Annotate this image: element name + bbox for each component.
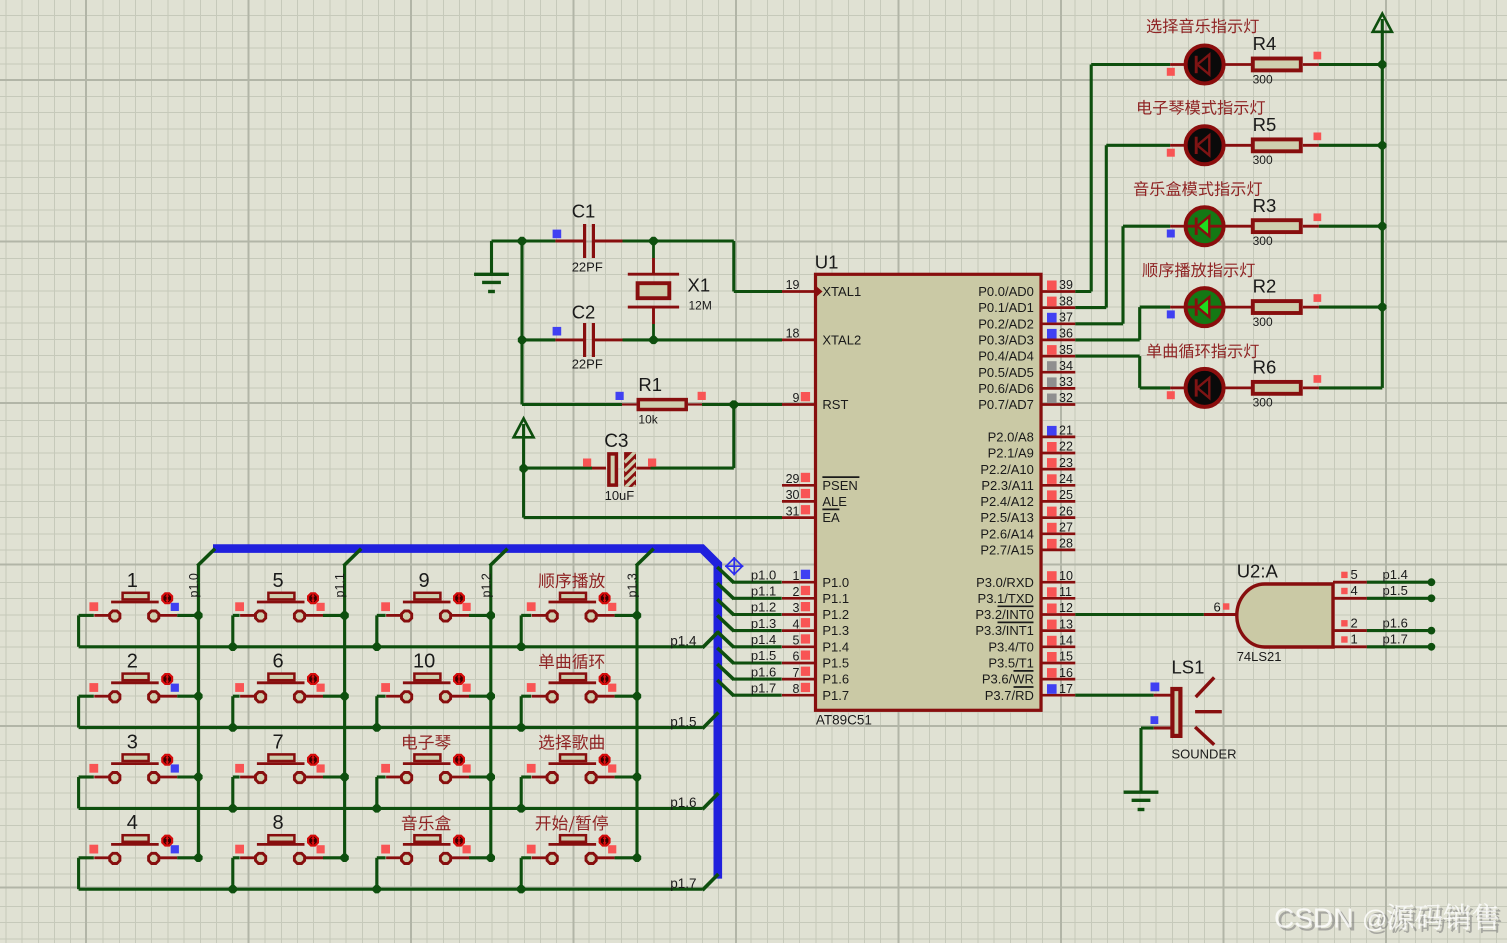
svg-text:LS1: LS1 xyxy=(1172,657,1205,678)
svg-text:R1: R1 xyxy=(638,374,662,395)
svg-text:ALE: ALE xyxy=(822,494,847,509)
svg-text:p1.7: p1.7 xyxy=(670,876,696,891)
svg-text:P1.3: P1.3 xyxy=(822,623,849,638)
svg-text:300: 300 xyxy=(1253,315,1273,329)
svg-text:27: 27 xyxy=(1059,521,1073,535)
svg-text:R6: R6 xyxy=(1253,357,1277,378)
svg-text:10uF: 10uF xyxy=(605,488,635,503)
svg-text:P2.3/A11: P2.3/A11 xyxy=(981,478,1034,493)
svg-text:8: 8 xyxy=(793,682,800,696)
svg-text:XTAL2: XTAL2 xyxy=(822,333,861,348)
svg-text:P3.2/INT0: P3.2/INT0 xyxy=(975,607,1034,622)
svg-text:P1.1: P1.1 xyxy=(822,591,849,606)
svg-text:CSDN: CSDN xyxy=(1274,903,1353,934)
svg-text:11: 11 xyxy=(1059,585,1072,599)
svg-text:P0.0/AD0: P0.0/AD0 xyxy=(978,284,1034,299)
svg-text:10: 10 xyxy=(413,651,435,673)
svg-text:12M: 12M xyxy=(689,299,712,313)
svg-text:R5: R5 xyxy=(1253,114,1277,135)
svg-text:P3.1/TXD: P3.1/TXD xyxy=(978,591,1034,606)
svg-text:R3: R3 xyxy=(1253,195,1277,216)
svg-text:P3.3/INT1: P3.3/INT1 xyxy=(975,623,1034,638)
svg-text:22PF: 22PF xyxy=(572,357,603,372)
svg-text:RST: RST xyxy=(822,397,848,412)
svg-text:P1.7: P1.7 xyxy=(822,688,849,703)
svg-text:p1.3: p1.3 xyxy=(751,616,776,631)
svg-text:EA: EA xyxy=(822,510,840,525)
svg-text:22PF: 22PF xyxy=(572,260,603,275)
svg-text:26: 26 xyxy=(1059,504,1073,518)
svg-text:P2.1/A9: P2.1/A9 xyxy=(988,446,1034,461)
svg-text:P2.4/A12: P2.4/A12 xyxy=(980,494,1034,509)
svg-text:XTAL1: XTAL1 xyxy=(822,284,861,299)
svg-text:33: 33 xyxy=(1059,375,1073,389)
svg-text:p1.4: p1.4 xyxy=(670,634,697,649)
svg-text:p1.4: p1.4 xyxy=(751,632,776,647)
svg-text:1: 1 xyxy=(127,570,138,592)
svg-text:C3: C3 xyxy=(604,431,628,452)
svg-text:p1.3: p1.3 xyxy=(626,573,640,597)
svg-text:6: 6 xyxy=(273,651,284,673)
svg-text:P3.7/RD: P3.7/RD xyxy=(985,688,1034,703)
svg-text:5: 5 xyxy=(1351,567,1358,582)
svg-text:9: 9 xyxy=(419,570,430,592)
svg-text:p1.0: p1.0 xyxy=(187,573,201,597)
svg-text:p1.0: p1.0 xyxy=(751,567,776,582)
svg-text:19: 19 xyxy=(786,278,800,292)
svg-text:300: 300 xyxy=(1253,234,1273,248)
svg-text:2: 2 xyxy=(127,651,138,673)
svg-text:29: 29 xyxy=(786,472,800,486)
svg-text:P1.4: P1.4 xyxy=(822,639,849,654)
svg-text:p1.6: p1.6 xyxy=(1383,615,1408,630)
svg-text:U2:A: U2:A xyxy=(1237,560,1279,581)
svg-text:6: 6 xyxy=(1213,600,1220,615)
svg-text:P3.0/RXD: P3.0/RXD xyxy=(976,575,1034,590)
svg-text:P0.6/AD6: P0.6/AD6 xyxy=(978,381,1034,396)
svg-text:P3.5/T1: P3.5/T1 xyxy=(988,656,1034,671)
svg-text:7: 7 xyxy=(273,731,284,753)
svg-text:28: 28 xyxy=(1059,537,1073,551)
svg-text:p1.5: p1.5 xyxy=(670,714,696,729)
svg-text:10k: 10k xyxy=(638,413,658,427)
svg-text:39: 39 xyxy=(1059,278,1073,292)
svg-text:P0.1/AD1: P0.1/AD1 xyxy=(978,300,1034,315)
svg-text:p1.1: p1.1 xyxy=(751,584,776,599)
svg-text:P1.2: P1.2 xyxy=(822,607,849,622)
svg-text:74LS21: 74LS21 xyxy=(1237,649,1282,664)
svg-text:P3.6/WR: P3.6/WR xyxy=(982,672,1034,687)
svg-text:R4: R4 xyxy=(1253,33,1277,54)
svg-text:p1.2: p1.2 xyxy=(751,600,776,615)
svg-text:2: 2 xyxy=(1351,615,1358,630)
svg-text:P0.7/AD7: P0.7/AD7 xyxy=(978,397,1034,412)
svg-text:34: 34 xyxy=(1059,359,1073,373)
svg-text:U1: U1 xyxy=(815,251,839,272)
svg-text:24: 24 xyxy=(1059,472,1073,486)
svg-text:300: 300 xyxy=(1253,153,1273,167)
svg-text:25: 25 xyxy=(1059,488,1073,502)
svg-text:37: 37 xyxy=(1059,311,1073,325)
svg-text:3: 3 xyxy=(793,601,800,615)
svg-text:14: 14 xyxy=(1059,634,1073,648)
svg-text:p1.6: p1.6 xyxy=(670,795,696,810)
svg-text:PSEN: PSEN xyxy=(822,478,857,493)
svg-text:21: 21 xyxy=(1059,424,1073,438)
svg-text:P0.2/AD2: P0.2/AD2 xyxy=(978,316,1034,331)
svg-text:p1.2: p1.2 xyxy=(479,573,493,597)
svg-text:P2.6/A14: P2.6/A14 xyxy=(980,526,1034,541)
svg-text:P1.5: P1.5 xyxy=(822,656,849,671)
svg-text:P0.3/AD3: P0.3/AD3 xyxy=(978,333,1034,348)
svg-text:P0.5/AD5: P0.5/AD5 xyxy=(978,365,1034,380)
svg-text:3: 3 xyxy=(127,731,138,753)
svg-text:p1.7: p1.7 xyxy=(1383,632,1408,647)
svg-text:AT89C51: AT89C51 xyxy=(816,712,872,727)
svg-text:@: @ xyxy=(1362,906,1387,934)
svg-text:2: 2 xyxy=(793,585,800,599)
svg-text:p1.1: p1.1 xyxy=(333,573,347,597)
svg-text:P0.4/AD4: P0.4/AD4 xyxy=(978,349,1034,364)
svg-text:1: 1 xyxy=(1351,632,1358,647)
svg-text:12: 12 xyxy=(1059,601,1073,615)
svg-text:P2.0/A8: P2.0/A8 xyxy=(988,430,1034,445)
svg-text:22: 22 xyxy=(1059,440,1073,454)
svg-text:8: 8 xyxy=(273,812,284,834)
svg-text:16: 16 xyxy=(1059,666,1073,680)
svg-text:38: 38 xyxy=(1059,294,1073,308)
svg-text:13: 13 xyxy=(1059,617,1073,631)
svg-text:1: 1 xyxy=(793,569,800,583)
svg-text:P1.0: P1.0 xyxy=(822,575,849,590)
svg-text:36: 36 xyxy=(1059,327,1073,341)
svg-text:7: 7 xyxy=(793,666,800,680)
svg-text:P1.6: P1.6 xyxy=(822,672,849,687)
svg-text:p1.6: p1.6 xyxy=(751,664,776,679)
svg-text:4: 4 xyxy=(1351,583,1358,598)
svg-text:p1.5: p1.5 xyxy=(1383,583,1408,598)
svg-text:17: 17 xyxy=(1059,682,1073,696)
svg-text:p1.5: p1.5 xyxy=(751,648,776,663)
svg-text:P2.7/A15: P2.7/A15 xyxy=(980,543,1034,558)
svg-text:35: 35 xyxy=(1059,343,1073,357)
svg-text:300: 300 xyxy=(1253,396,1273,410)
svg-text:p1.4: p1.4 xyxy=(1383,567,1408,582)
svg-text:300: 300 xyxy=(1253,72,1273,86)
svg-text:5: 5 xyxy=(273,570,284,592)
svg-text:30: 30 xyxy=(786,488,800,502)
svg-text:R2: R2 xyxy=(1253,276,1277,297)
svg-text:31: 31 xyxy=(786,504,800,518)
svg-text:18: 18 xyxy=(786,327,800,341)
svg-text:23: 23 xyxy=(1059,456,1073,470)
svg-text:4: 4 xyxy=(793,617,800,631)
svg-text:6: 6 xyxy=(793,650,800,664)
svg-text:32: 32 xyxy=(1059,391,1073,405)
svg-text:X1: X1 xyxy=(688,275,711,296)
svg-text:4: 4 xyxy=(127,812,138,834)
svg-text:9: 9 xyxy=(793,391,800,405)
svg-text:10: 10 xyxy=(1059,569,1073,583)
svg-text:5: 5 xyxy=(793,634,800,648)
svg-text:C1: C1 xyxy=(572,201,596,222)
svg-text:P2.2/A10: P2.2/A10 xyxy=(980,462,1034,477)
svg-text:p1.7: p1.7 xyxy=(751,681,776,696)
svg-text:SOUNDER: SOUNDER xyxy=(1172,747,1237,762)
svg-text:P2.5/A13: P2.5/A13 xyxy=(980,510,1034,525)
svg-text:P3.4/T0: P3.4/T0 xyxy=(988,639,1034,654)
svg-text:15: 15 xyxy=(1059,650,1073,664)
svg-text:C2: C2 xyxy=(572,302,596,323)
